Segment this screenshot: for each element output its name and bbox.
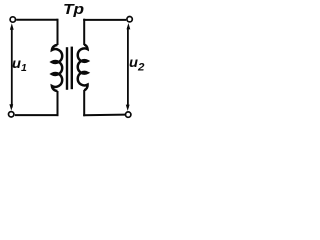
voltage arrow u2 shaft — [127, 27, 129, 108]
winding primary W1 — [52, 45, 62, 91]
terminal top-right — [127, 17, 132, 22]
core line right — [71, 47, 73, 90]
wire top-left — [16, 19, 57, 21]
terminal top-left — [10, 17, 15, 22]
label voltage u1 — [12, 56, 27, 74]
wire top-right — [83, 19, 126, 21]
label voltage u2 — [129, 55, 144, 74]
wire bottom-right — [83, 114, 125, 117]
wire primary top lead — [57, 19, 59, 45]
wire secondary top lead — [83, 19, 85, 45]
voltage arrow u1 shaft — [11, 27, 13, 108]
voltage arrow u2 head down — [126, 105, 130, 111]
terminal bottom-left — [9, 112, 14, 117]
voltage arrow u1 head up — [10, 23, 14, 29]
winding secondary W2 — [78, 45, 88, 91]
voltage arrow u1 head down — [9, 104, 13, 110]
wire bottom-left — [15, 114, 59, 116]
wire secondary bottom lead — [83, 90, 85, 116]
voltage arrow u2 head up — [127, 23, 131, 29]
wire primary bottom lead — [57, 91, 59, 116]
core line left — [66, 47, 68, 90]
label transformer Tp — [63, 2, 84, 17]
terminal bottom-right — [126, 112, 131, 117]
